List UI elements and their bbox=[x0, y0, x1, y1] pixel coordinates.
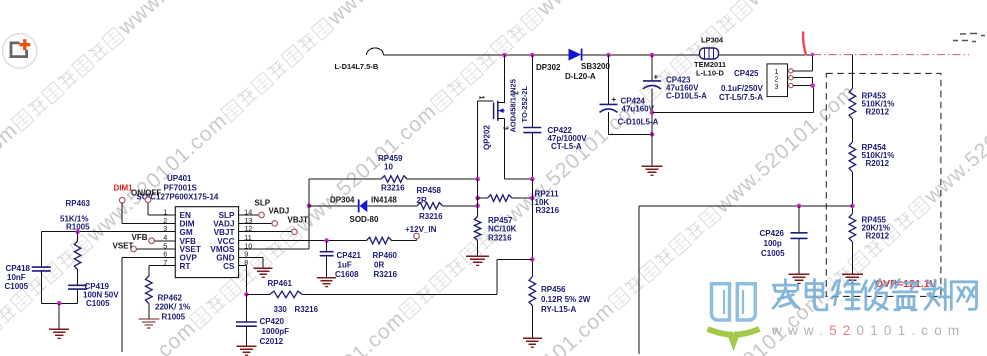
resistor RP211 bbox=[488, 195, 513, 202]
ground CP420 bbox=[236, 345, 256, 347]
node QP202 drain on rail bbox=[502, 53, 507, 58]
terminal VBJT bbox=[292, 229, 298, 235]
wire top rail from inductor to DP302 anode bbox=[384, 54, 569, 56]
wire RP458 right segment bbox=[443, 205, 478, 207]
node CP424/CP423 gnd join bbox=[650, 132, 655, 137]
capacitor CP423 (polarized) bbox=[643, 80, 661, 82]
wire pin6 OVP wire bbox=[122, 257, 175, 352]
resistor RP458 bbox=[417, 203, 442, 210]
ground output caps bbox=[642, 165, 663, 167]
ground RP456 bbox=[523, 337, 542, 339]
wire CP423 top lead bbox=[651, 55, 653, 81]
wire RP453 top lead bbox=[851, 55, 853, 89]
wire x309 column bbox=[308, 179, 310, 249]
wire pin8 CS stub bbox=[239, 266, 247, 295]
wire pin4 VFB stub bbox=[154, 240, 175, 242]
ground input network bbox=[49, 328, 69, 330]
wire RP455 to ground bbox=[851, 242, 853, 274]
wire QP202 gate bbox=[478, 101, 494, 179]
wire CP423 bottom lead bbox=[651, 89, 653, 167]
wire pin2 DIM stub bbox=[122, 203, 175, 223]
wire pin11 VCC wire bbox=[239, 240, 417, 242]
node RP458/RP457 junction bbox=[475, 204, 480, 209]
node CP421 tap bbox=[324, 238, 329, 243]
capacitor CP419 bbox=[68, 284, 87, 286]
terminal ON/OFF bbox=[145, 197, 151, 203]
wire pin10 VMOS wire bbox=[239, 179, 309, 249]
node gate column top bbox=[475, 177, 480, 182]
wire RP459 left segment bbox=[309, 178, 381, 180]
resistor RP463 bbox=[77, 232, 79, 241]
node output gnd wire bbox=[650, 110, 655, 115]
capacitor CP426 bbox=[791, 232, 808, 234]
wire connector pin1 to rail bbox=[793, 55, 813, 71]
wire CP421 top lead bbox=[326, 241, 328, 252]
wire QP202 drain from rail bbox=[498, 55, 505, 102]
node SW bottom junction bbox=[530, 177, 535, 182]
wire RP453 to RP454 bbox=[851, 119, 853, 142]
wire CP424 bottom lead bbox=[609, 112, 653, 134]
diode DP304 bbox=[358, 199, 360, 212]
wire CP420 top lead bbox=[245, 294, 247, 321]
resistor RP454 bbox=[849, 142, 856, 172]
resistor RP461 bbox=[246, 293, 270, 295]
logo book icon bbox=[712, 284, 756, 320]
node CP422 top on rail bbox=[530, 53, 535, 58]
wire RP463 to CP419 bbox=[77, 270, 79, 285]
wire pin3 GM long wire bbox=[41, 231, 175, 233]
resistor RP460 bbox=[366, 237, 391, 244]
node divider tap bbox=[850, 204, 855, 209]
ic U UP401 box bbox=[175, 207, 238, 278]
wire off-page dash-dot net bbox=[813, 54, 969, 56]
node CP423 top bbox=[650, 53, 655, 58]
node RP211 right bbox=[530, 196, 535, 201]
ground IC GND bbox=[254, 267, 273, 269]
wire CP424 top lead bbox=[608, 55, 610, 104]
wire DP304 to RP458 bbox=[367, 205, 417, 207]
wire RP454 to divider tap bbox=[851, 172, 853, 214]
inductor L-D14L7.5-B bbox=[367, 48, 384, 55]
diode DP302 bbox=[569, 49, 582, 61]
capacitor CP421 bbox=[320, 251, 334, 253]
wire CP426 top lead bbox=[798, 206, 800, 232]
wire SW column bbox=[531, 179, 533, 277]
terminal +12V_IN bbox=[416, 239, 418, 241]
wire CP419 bottom lead bbox=[77, 290, 79, 304]
wire connector pin3 bbox=[793, 85, 814, 87]
wire CP422 bottom lead bbox=[531, 133, 533, 179]
terminal VFB bbox=[149, 238, 155, 244]
capacitor CP422 bbox=[523, 127, 541, 129]
tiny cut text top right bbox=[953, 34, 985, 42]
node connector pins 2-3 bbox=[810, 83, 815, 88]
logo chinese title (stylized strokes) bbox=[773, 280, 799, 309]
capacitor CP424 (polarized) bbox=[600, 103, 618, 105]
ground RP462 bbox=[138, 318, 159, 320]
resistor RP455 bbox=[849, 214, 856, 242]
capacitor CP420 bbox=[236, 321, 257, 323]
node CP424 top bbox=[606, 53, 611, 58]
resistor RP456 bbox=[529, 277, 536, 306]
wire RP456 to ground bbox=[531, 306, 533, 338]
ground CP426 bbox=[789, 273, 810, 275]
terminal DIM1 bbox=[119, 197, 125, 203]
wire DP304 anode side bbox=[309, 205, 358, 207]
wire gnd stem bbox=[58, 303, 60, 329]
node input gnd stem bbox=[57, 301, 62, 306]
resistor RP453 bbox=[849, 89, 856, 120]
wire CP418 bottom lead bbox=[40, 271, 42, 303]
node CS junction bbox=[244, 292, 249, 297]
wire CP420 bottom lead bbox=[245, 327, 247, 346]
wire CP422 top lead bbox=[531, 55, 533, 127]
resistor RP457 bbox=[474, 217, 481, 241]
dashed annotation box bbox=[826, 73, 941, 296]
wire CP421 bottom lead bbox=[326, 256, 328, 277]
svg-text:www.520101.com: www.520101.com bbox=[771, 323, 965, 338]
wire rail DP302 to LP304 bbox=[583, 54, 701, 56]
wire output to connector loop bbox=[652, 86, 814, 113]
corner badge icon bbox=[3, 34, 37, 68]
connector J output bbox=[767, 64, 788, 97]
red annotation stroke bbox=[803, 33, 806, 55]
node CP426 tap bbox=[797, 204, 802, 209]
wire RP462 to ground bbox=[148, 304, 150, 319]
ground RP457 bbox=[466, 255, 489, 257]
wire OVP feedback rail bbox=[639, 206, 852, 354]
wire RP459 right segment bbox=[407, 178, 478, 180]
wire gate column to RP457 bbox=[477, 179, 479, 217]
resistor RP462 bbox=[146, 276, 153, 304]
terminal SLP bbox=[259, 212, 265, 218]
wire CP426 bottom lead bbox=[798, 239, 800, 274]
wire connector pin2 bbox=[793, 78, 813, 86]
terminal VSET bbox=[131, 246, 137, 252]
wire pin7 RT stub bbox=[149, 266, 176, 276]
node CS tap bbox=[530, 257, 535, 262]
wire pin9 GND stub bbox=[239, 257, 264, 268]
wire rail LP304 to connector bbox=[719, 54, 814, 56]
wire pin1 EN stub bbox=[148, 203, 175, 215]
wire RP457 to ground bbox=[477, 241, 479, 257]
node RP211 left bbox=[475, 196, 480, 201]
capacitor CP418 bbox=[32, 266, 51, 268]
wire QP202 source to SW bottom bbox=[505, 119, 533, 179]
wire pin14 SLP stub bbox=[239, 214, 259, 216]
terminal VADJ bbox=[272, 221, 278, 227]
ground CP421 bbox=[317, 277, 336, 279]
resistor RP459 bbox=[381, 176, 407, 183]
wire pin5 VSET stub bbox=[136, 248, 175, 250]
wire input gnd bus bbox=[41, 302, 77, 304]
transistor Q QP202 symbol bbox=[493, 103, 495, 120]
wire CP418 branch bbox=[40, 232, 42, 267]
logo green swoosh bbox=[708, 329, 760, 343]
wire RP461 to CS sense bbox=[302, 260, 532, 295]
wire pin13 VADJ stub bbox=[239, 222, 272, 224]
node pin1 rail bbox=[811, 53, 815, 57]
wire pin12 VBJT stub bbox=[239, 231, 292, 233]
inductor LP304 bbox=[700, 48, 719, 59]
ground RP455 bbox=[842, 273, 863, 275]
node RP463 top bbox=[75, 229, 80, 234]
node DP304 branch bbox=[307, 204, 312, 209]
